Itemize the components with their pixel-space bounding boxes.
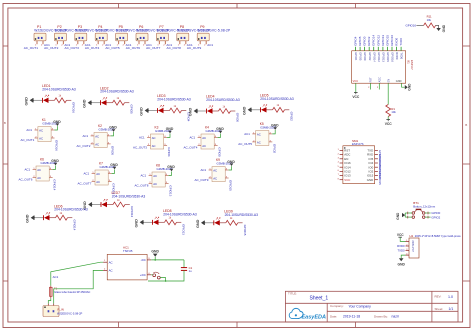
svg-text:GPIO15: GPIO15 — [243, 225, 247, 236]
pin stub (U1 top GPIO16) — [391, 47, 393, 51]
LED LED7 — [101, 199, 107, 207]
svg-text:GPIO16: GPIO16 — [72, 102, 76, 113]
svg-text:204-10SURD/S530-A3: 204-10SURD/S530-A3 — [100, 90, 134, 94]
pin 1 marker — [344, 147, 345, 148]
wire (BT1 right) — [425, 212, 431, 214]
pin GND (SM1 right) — [375, 179, 378, 181]
svg-text:AC: AC — [257, 132, 261, 136]
junction — [154, 259, 156, 261]
svg-text:Sheet:: Sheet: — [435, 307, 444, 311]
LED LED6 — [44, 212, 50, 220]
wire — [125, 204, 130, 206]
resistor R (LED7 series) — [113, 202, 125, 207]
wire (pin4 to GND) — [272, 130, 275, 134]
wire — [177, 221, 182, 223]
svg-text:AC1: AC1 — [244, 132, 250, 136]
connector P_IN WJ2EDGVC-5.08-2P — [43, 304, 59, 317]
wire — [151, 274, 153, 276]
svg-text:GND: GND — [227, 160, 235, 164]
ground — [83, 201, 93, 210]
svg-text:AC_OUT9: AC_OUT9 — [187, 46, 202, 50]
svg-text:AC: AC — [39, 136, 43, 140]
wire (pin4 to GND) — [53, 166, 56, 170]
svg-text:AC_OUT3: AC_OUT3 — [133, 146, 147, 150]
svg-text:1/1: 1/1 — [449, 307, 454, 311]
LED LED1 — [43, 95, 49, 103]
svg-text:GND: GND — [408, 83, 412, 91]
svg-text:Button_12x12mm: Button_12x12mm — [413, 205, 436, 209]
node GND (LED1 channel) — [25, 97, 35, 106]
wire — [416, 24, 423, 26]
wire — [154, 257, 156, 260]
svg-text:GPIO15: GPIO15 — [229, 180, 233, 191]
svg-text:AC: AC — [213, 168, 217, 172]
svg-text:GPIO16: GPIO16 — [55, 140, 59, 151]
ground (AC1) — [151, 249, 159, 256]
pin stub (U1 top GPIO15) — [386, 47, 388, 51]
svg-text:TXD0: TXD0 — [397, 249, 405, 253]
pin stub (U1 top TXD0) — [400, 47, 402, 51]
svg-text:GND: GND — [53, 120, 61, 124]
svg-text:GND: GND — [189, 108, 193, 117]
svg-text:GPIO16: GPIO16 — [390, 35, 394, 46]
svg-text:GND: GND — [25, 97, 29, 106]
ground (K6) — [51, 159, 59, 165]
pin IO2 (SM1 right) — [375, 170, 378, 172]
svg-text:GPIO2: GPIO2 — [367, 36, 371, 46]
relay K7 G3MB-202P — [92, 170, 112, 185]
pin RST (SM1 left) — [340, 149, 343, 151]
pin IO14 (SM1 left) — [340, 166, 343, 168]
svg-text:RXD0: RXD0 — [397, 244, 405, 248]
svg-text:GPIO0: GPIO0 — [236, 113, 240, 123]
svg-text:GPIO4: GPIO4 — [354, 36, 358, 46]
svg-text:204-10SURD/S530-A3: 204-10SURD/S530-A3 — [225, 213, 259, 217]
svg-text:GND: GND — [398, 263, 406, 267]
svg-text:AC: AC — [96, 180, 100, 184]
svg-text:VCC: VCC — [353, 79, 359, 83]
svg-text:B: B — [4, 121, 6, 125]
svg-text:AC_OUT7: AC_OUT7 — [146, 46, 161, 50]
LED LED9 — [214, 218, 220, 226]
IC U1 ESP-07 — [352, 51, 406, 83]
svg-text:AC_OUT4: AC_OUT4 — [184, 146, 198, 150]
ground (K7) — [110, 163, 118, 169]
relay K5 G3MB-202P — [252, 131, 272, 146]
svg-text:2005-1*4P: 2005-1*4P — [411, 240, 414, 252]
svg-text:GND: GND — [140, 107, 144, 116]
connector P3 WJ2EDGVC-5.08-2P — [75, 33, 87, 44]
svg-text:AC: AC — [95, 142, 99, 146]
svg-text:AC1: AC1 — [26, 128, 32, 132]
resistor R1 10k — [386, 105, 391, 117]
ground (U1) — [405, 83, 412, 91]
svg-text:GPIO2: GPIO2 — [368, 52, 372, 61]
pin ADC (SM1 left) — [340, 154, 343, 156]
wire (H1 pin1 to VCC) — [400, 237, 405, 241]
wire — [144, 221, 152, 223]
wire — [92, 102, 100, 104]
relay K8 G3MB-202P — [149, 172, 169, 187]
svg-text:AC_OUT9: AC_OUT9 — [195, 178, 209, 182]
svg-text:10k: 10k — [427, 18, 432, 22]
connector P5 WJ2EDGVC-5.08-2P — [116, 33, 128, 44]
svg-text:GND: GND — [367, 178, 373, 182]
svg-text:GPIO16: GPIO16 — [406, 23, 417, 27]
wire — [231, 110, 236, 112]
svg-text:TITLE:: TITLE: — [288, 292, 297, 296]
resistor R (LED6 series) — [56, 215, 68, 220]
power module AC1 TSP-05 — [107, 254, 147, 280]
svg-text:Drawn By:: Drawn By: — [374, 315, 388, 319]
ground (K1) — [53, 120, 61, 126]
svg-text:204-10SURD/S530-A3: 204-10SURD/S530-A3 — [42, 87, 76, 91]
resistor R11 10k — [424, 23, 436, 28]
pin +DC 4 — [147, 274, 151, 276]
svg-text:nazir: nazir — [392, 315, 400, 319]
module SM1 ESP-07S — [343, 146, 375, 184]
wire — [182, 110, 187, 112]
svg-text:GPIO12: GPIO12 — [112, 183, 116, 194]
svg-text:AC: AC — [257, 140, 261, 144]
ground — [25, 97, 35, 106]
svg-text:GND: GND — [442, 24, 446, 32]
svg-text:GPIO15: GPIO15 — [385, 35, 389, 46]
connector P7 WJ2EDGVC-5.08-2P — [156, 33, 168, 44]
ground (K8) — [167, 165, 175, 171]
pin IO16 (SM1 left) — [340, 162, 343, 164]
svg-text:ESP-07: ESP-07 — [410, 60, 414, 70]
relay K9 G3MB-202P — [209, 167, 229, 182]
svg-text:GPIO12: GPIO12 — [130, 206, 134, 217]
svg-text:AC1: AC1 — [141, 174, 147, 178]
svg-text:204-10SURD/S530-A3: 204-10SURD/S530-A3 — [206, 98, 240, 102]
pin stub (U1 top GPIO13) — [382, 47, 384, 51]
pin stub (U1 top RXD0) — [396, 47, 398, 51]
svg-text:204-10SURD/S530-A3: 204-10SURD/S530-A3 — [157, 98, 191, 102]
pin EN (SM1 left) — [340, 158, 343, 160]
pin AC 1 — [103, 261, 107, 263]
node GND (LED8 channel) — [135, 219, 145, 228]
wire — [238, 222, 243, 224]
pin stub (U1 top GPIO2) — [368, 47, 370, 51]
svg-text:EN: EN — [387, 79, 390, 83]
wire — [198, 110, 206, 112]
wire — [402, 83, 405, 87]
svg-text:GPIO2: GPIO2 — [272, 144, 276, 154]
wire — [50, 217, 56, 219]
relay K6 G3MB-202P — [33, 166, 53, 181]
svg-text:VCC: VCC — [352, 95, 360, 99]
svg-text:REV:: REV: — [435, 295, 442, 299]
connector P4 WJ2EDGVC-5.08-2P — [95, 33, 107, 44]
node GND (LED9 channel) — [196, 219, 206, 228]
wire — [149, 110, 157, 112]
svg-text:Company:: Company: — [330, 304, 344, 308]
wire — [159, 221, 165, 223]
wire (pin4 to GND) — [169, 172, 172, 176]
svg-text:-DC: -DC — [141, 258, 146, 262]
wire (pin4 to GND) — [229, 166, 232, 170]
resistor R (LED9 series) — [226, 220, 238, 225]
svg-text:GPIO13: GPIO13 — [381, 35, 385, 46]
ground (R11) — [436, 24, 446, 32]
pin -DC 3 — [147, 259, 151, 261]
connector P1 WJ2EDGVC-5.08-2P — [34, 33, 46, 44]
switch BT1 Button_12x12mm — [412, 209, 425, 219]
svg-text:AC_OUT1: AC_OUT1 — [20, 138, 34, 142]
svg-text:GND: GND — [151, 249, 159, 253]
svg-text:AC_OUT4: AC_OUT4 — [85, 46, 100, 50]
LED LED3 — [158, 105, 164, 113]
svg-text:GPIO13: GPIO13 — [382, 52, 386, 62]
svg-text:AC_OUT1: AC_OUT1 — [24, 46, 39, 50]
svg-text:GPIO13: GPIO13 — [182, 224, 186, 235]
svg-text:GPIO16: GPIO16 — [391, 52, 395, 62]
svg-text:AC: AC — [37, 176, 41, 180]
pin IO5 (SM1 right) — [375, 158, 378, 160]
svg-text:AC1: AC1 — [139, 136, 145, 140]
svg-text:GND: GND — [196, 219, 200, 228]
svg-text:1.0: 1.0 — [448, 295, 453, 299]
svg-text:AC_OUT5: AC_OUT5 — [105, 46, 120, 50]
fuse F1 — [50, 286, 53, 299]
wire — [206, 222, 214, 224]
svg-text:VCC: VCC — [385, 122, 393, 126]
svg-text:GPIO0: GPIO0 — [218, 147, 222, 157]
LED LED2 — [101, 97, 107, 105]
svg-text:Glass tube fuse1A 3P 250VAC: Glass tube fuse1A 3P 250VAC — [54, 290, 90, 294]
wire — [107, 204, 113, 206]
wire (-DC rail) — [151, 259, 184, 261]
node GND (LED6 channel) — [26, 214, 36, 223]
svg-text:GPIO15: GPIO15 — [386, 52, 390, 62]
svg-text:AC: AC — [96, 172, 100, 176]
title block — [285, 291, 458, 322]
svg-text:AC: AC — [213, 176, 217, 180]
resistor R (LED8 series) — [165, 220, 177, 225]
svg-text:AC_OUT7: AC_OUT7 — [78, 182, 92, 186]
svg-text:WJ2EDGVC-5.08-2P: WJ2EDGVC-5.08-2P — [57, 311, 82, 315]
svg-text:AC: AC — [202, 144, 206, 148]
svg-text:AC_OUT3: AC_OUT3 — [65, 46, 80, 50]
svg-text:GND: GND — [109, 126, 117, 130]
svg-text:2019-11-18: 2019-11-18 — [343, 315, 360, 319]
wire — [93, 204, 101, 206]
svg-text:GND: GND — [271, 124, 279, 128]
svg-text:GPIO5: GPIO5 — [358, 36, 362, 46]
pin IO15 (SM1 right) — [375, 175, 378, 177]
wire (pin4 to GND) — [218, 134, 221, 138]
relay K3 G3MB-202P — [147, 134, 167, 149]
svg-text:EasyEDA: EasyEDA — [302, 314, 326, 320]
wire (pin4 to GND) — [55, 126, 58, 130]
svg-text:AC1: AC1 — [83, 134, 89, 138]
svg-text:204-10SURD/S530-A3: 204-10SURD/S530-A3 — [54, 208, 88, 212]
pin stub (U1 top GPIO14) — [373, 47, 375, 51]
ground (K2) — [109, 126, 117, 132]
pin 2 (H1) — [406, 245, 410, 247]
wire — [387, 117, 389, 120]
svg-text:AC1: AC1 — [201, 168, 207, 172]
wire — [125, 102, 130, 104]
pin 4 (H1) — [406, 254, 410, 256]
svg-text:H1: H1 — [410, 234, 414, 238]
resistor R (LED2 series) — [113, 100, 125, 105]
LED LED5 — [261, 105, 267, 113]
svg-text:AC_OUT8: AC_OUT8 — [135, 184, 149, 188]
connector P6 WJ2EDGVC-5.08-2P — [136, 33, 148, 44]
svg-text:GPIO14: GPIO14 — [53, 179, 57, 190]
wire (EN to R1) — [387, 83, 389, 104]
pin stub (U1 top GPIO0) — [364, 47, 366, 51]
svg-text:AC_OUT6: AC_OUT6 — [126, 46, 141, 50]
wire (pin4 to GND) — [167, 134, 170, 138]
svg-text:GND: GND — [26, 214, 30, 223]
svg-text:GND: GND — [396, 79, 402, 83]
ground (K5) — [271, 124, 279, 130]
wire (AC1 pin1 to fuse) — [51, 262, 103, 286]
svg-text:Your Company: Your Company — [349, 304, 372, 308]
svg-text:AC: AC — [109, 260, 113, 264]
ground — [243, 106, 253, 115]
wire — [49, 99, 55, 101]
wire (pin4 to GND) — [111, 132, 114, 136]
svg-text:GND: GND — [216, 127, 224, 131]
svg-text:RXD0: RXD0 — [395, 52, 399, 60]
pin IO0 (SM1 right) — [375, 166, 378, 168]
wire — [267, 109, 273, 111]
svg-text:Sheet_1: Sheet_1 — [310, 296, 329, 302]
svg-text:GPIO15: GPIO15 — [378, 175, 382, 185]
ground — [140, 107, 150, 116]
pin stub (U1 top GPIO12) — [377, 47, 379, 51]
relay K2 G3MB-202P — [91, 133, 111, 148]
svg-text:AC: AC — [95, 134, 99, 138]
svg-text:GPIO12: GPIO12 — [377, 52, 381, 62]
resistor R (LED4 series) — [219, 109, 231, 114]
relay K1 G3MB-202P — [35, 127, 55, 142]
ground (H1) — [398, 258, 406, 266]
svg-text:204-10SURD/S530-A3: 204-10SURD/S530-A3 — [260, 97, 294, 101]
svg-text:GND: GND — [167, 165, 175, 169]
node GND (LED2 channel) — [83, 99, 93, 108]
LED LED4 — [207, 106, 213, 114]
svg-text:AC_OUT6: AC_OUT6 — [19, 178, 33, 182]
wire (pin4 to GND) — [112, 170, 115, 174]
wire — [220, 222, 226, 224]
power VCC (U1) — [352, 93, 360, 99]
pin IO13 (SM1 left) — [340, 175, 343, 177]
svg-text:AC_OUT5: AC_OUT5 — [238, 142, 252, 146]
svg-text:RST: RST — [370, 77, 373, 82]
wire — [34, 99, 42, 101]
svg-text:10k: 10k — [391, 110, 396, 114]
ground — [83, 99, 93, 108]
svg-text:AC: AC — [202, 136, 206, 140]
svg-text:TXD0: TXD0 — [400, 52, 404, 59]
wire (H1 pin4 to GND) — [401, 255, 405, 258]
svg-text:GPIO4: GPIO4 — [167, 147, 171, 157]
wire — [183, 260, 185, 268]
wire — [285, 109, 290, 111]
pin IO4 (SM1 right) — [375, 162, 378, 164]
svg-text:AC: AC — [39, 128, 43, 132]
svg-text:GND: GND — [166, 127, 174, 131]
wire (AC1 pin2 to P_IN) — [54, 270, 103, 303]
svg-text:AC_OUT2: AC_OUT2 — [77, 144, 91, 148]
svg-text:GND: GND — [243, 106, 247, 115]
svg-text:GND: GND — [396, 212, 400, 220]
ground (K4) — [216, 127, 224, 133]
wire — [35, 217, 43, 219]
svg-text:ADC: ADC — [378, 77, 381, 82]
pin 3 (H1) — [406, 250, 410, 252]
svg-text:GND: GND — [110, 163, 118, 167]
connector H1 2005-1*4P — [409, 238, 419, 258]
wire (fuse to P_IN) — [48, 299, 51, 304]
connector P9 WJ2EDGVC-5.08-2P — [197, 33, 209, 44]
pin stub (U1 top GPIO5) — [359, 47, 361, 51]
svg-text:GPIO0: GPIO0 — [363, 36, 367, 46]
svg-text:GPIO4: GPIO4 — [354, 52, 358, 61]
pin 1 (H1) — [406, 240, 410, 242]
svg-text:AC1: AC1 — [190, 136, 196, 140]
svg-text:TXD0: TXD0 — [399, 38, 403, 46]
pin AC 2 — [103, 269, 107, 271]
wire — [107, 102, 113, 104]
svg-text:GND: GND — [135, 219, 139, 228]
ground — [196, 219, 206, 228]
svg-text:GPIO14: GPIO14 — [372, 35, 376, 46]
svg-text:204-10SURD/S530-A3: 204-10SURD/S530-A3 — [163, 212, 197, 216]
ground — [135, 219, 145, 228]
LED LED8 — [153, 217, 159, 225]
svg-text:GPIO14: GPIO14 — [73, 220, 77, 231]
svg-text:VCC: VCC — [344, 178, 350, 182]
wire — [68, 217, 73, 219]
jumper (output circles) — [153, 272, 160, 279]
svg-text:GPIO5: GPIO5 — [359, 52, 363, 61]
svg-text:Date:: Date: — [330, 315, 337, 319]
svg-text:AC1: AC1 — [207, 43, 213, 47]
svg-text:GPIO13: GPIO13 — [169, 185, 173, 196]
node GND (LED3 channel) — [140, 107, 150, 116]
ground (K3) — [166, 127, 174, 133]
svg-text:GPIO5: GPIO5 — [111, 146, 115, 156]
svg-text:2005-1*4P H=8.5MM Yype Gold-pr: 2005-1*4P H=8.5MM Yype Gold-press — [415, 234, 461, 238]
svg-text:AC: AC — [152, 144, 156, 148]
resistor R (LED5 series) — [273, 107, 285, 112]
svg-text:AC: AC — [37, 168, 41, 172]
wire (BT1 left) — [405, 212, 412, 214]
svg-text:204-10SURD/S530-A3: 204-10SURD/S530-A3 — [112, 195, 146, 199]
svg-text:AC: AC — [153, 174, 157, 178]
svg-text:AC_OUT2: AC_OUT2 — [44, 46, 59, 50]
svg-text:VCC: VCC — [397, 233, 404, 237]
svg-text:GPIO0: GPIO0 — [363, 52, 367, 61]
capacitor C1 — [181, 268, 187, 271]
svg-text:GND: GND — [83, 99, 87, 108]
resistor R (LED1 series) — [55, 98, 67, 103]
pin TXD (SM1 right) — [375, 149, 378, 151]
svg-text:1u: 1u — [189, 269, 192, 273]
wire — [213, 110, 219, 112]
svg-text:AC1: AC1 — [25, 168, 31, 172]
EasyEDA logo — [289, 308, 326, 320]
svg-text:GPIO12: GPIO12 — [376, 35, 380, 46]
svg-text:GPIO2: GPIO2 — [290, 112, 294, 122]
